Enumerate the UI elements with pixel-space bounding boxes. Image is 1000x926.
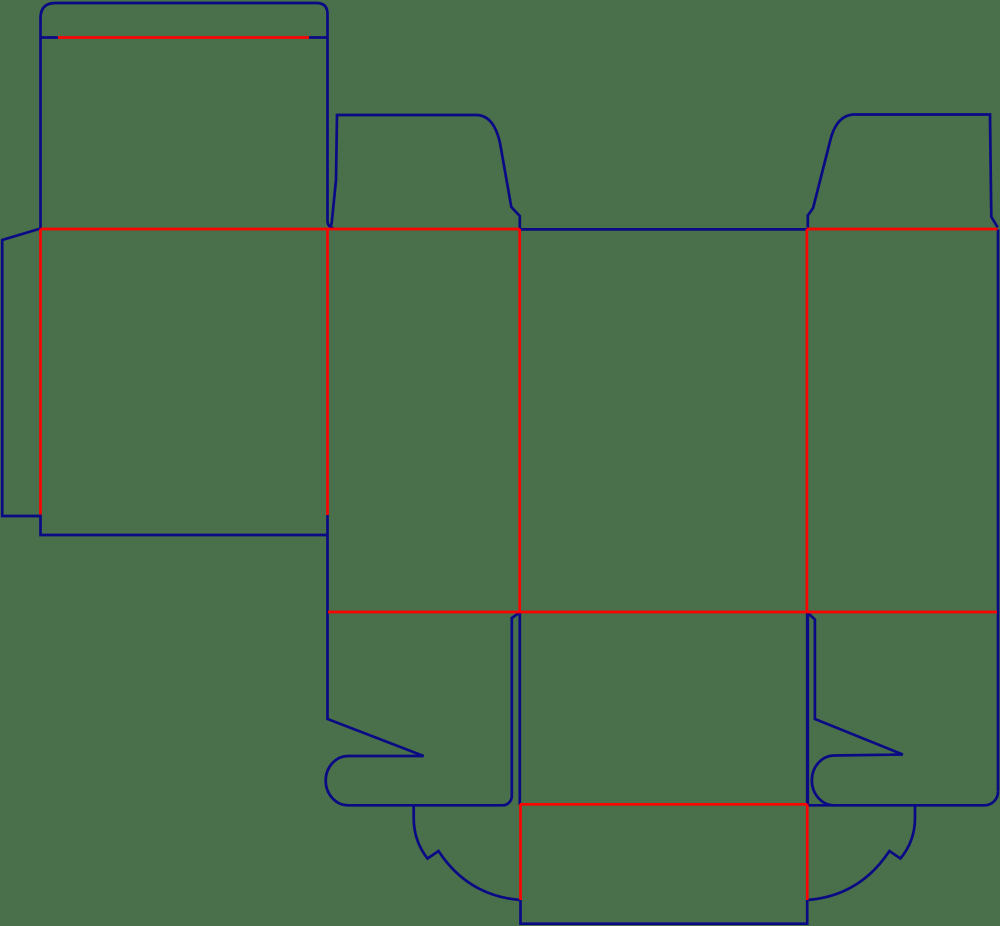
right sheet edge [997, 229, 1000, 792]
bottom tongue [521, 900, 808, 924]
fold2 crease [328, 611, 997, 614]
vertical panel creases [41, 229, 807, 612]
left wing arc with tooth [414, 805, 521, 900]
col2 bottom flap [326, 515, 520, 805]
right wing arc with tooth [807, 805, 915, 900]
glue flap (left) [2, 229, 327, 536]
tongue side creases [521, 804, 808, 900]
col4 bottom flap outer [808, 613, 998, 806]
bottom flap crease [520, 803, 808, 806]
lid crease blue stubs [41, 36, 328, 39]
col3 bottom flap side edges [520, 612, 807, 805]
lid panel outline (top-left rounded rect) [41, 3, 335, 229]
col4 bottom flap inner hook [808, 613, 903, 805]
fold1 creases [41, 228, 998, 231]
top flap col4 [808, 115, 998, 230]
top flap col2 [330, 115, 520, 229]
lid crease [58, 36, 309, 39]
panel3 top cut edge [520, 228, 807, 231]
